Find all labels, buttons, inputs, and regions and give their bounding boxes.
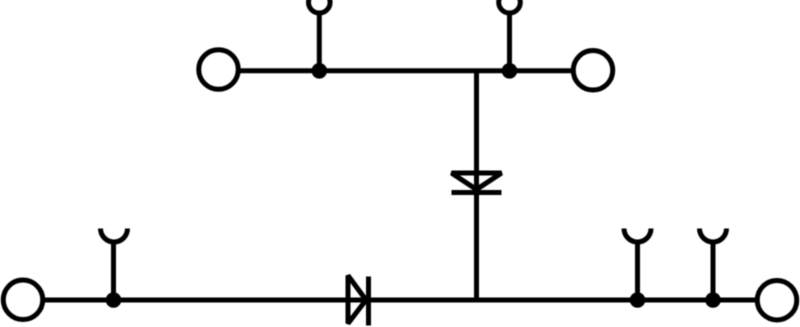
test socket ring TP1 (top, x=318.5, clipped by top edge) (309, 0, 331, 13)
diode D2 cathode bar (366, 277, 371, 326)
wire top rail (239, 68, 573, 73)
test socket arc TP3 (bottom, x=113.5) (101, 229, 128, 243)
test socket arc TP5 (bottom, x=713) (700, 229, 727, 243)
wire stem TP1 (317, 13, 322, 71)
junction dot node B (top rail x=509) (502, 63, 518, 79)
diode D1 cathode bar (452, 190, 502, 195)
junction dot node E (bottom rail x=713) (705, 292, 721, 308)
wire stem TP4 (635, 240, 640, 300)
terminal circle X4 (bottom right) (757, 280, 797, 320)
wire stem TP5 (711, 240, 716, 300)
terminal circle X1 (top left) (199, 50, 239, 90)
junction dot node C (bottom rail x=113.5) (106, 292, 122, 308)
wire stem TP2 (507, 13, 512, 71)
wire stem TP3 (111, 240, 116, 300)
terminal circle X3 (bottom left) (3, 280, 43, 320)
diode D2 triangle (pointing right) (348, 276, 366, 324)
diode D1 triangle (pointing down) (452, 173, 502, 190)
terminal circle X2 (top right) (573, 51, 613, 91)
junction dot node D (bottom rail x=637.5) (630, 292, 646, 308)
wire vertical branch (474, 71, 479, 301)
junction dot node A (top rail x=318.5) (312, 63, 328, 79)
test socket ring TP2 (top, x=509, clipped by top edge) (499, 0, 521, 13)
wire bottom rail (44, 298, 757, 303)
test socket arc TP4 (bottom, x=637.5) (624, 229, 651, 243)
